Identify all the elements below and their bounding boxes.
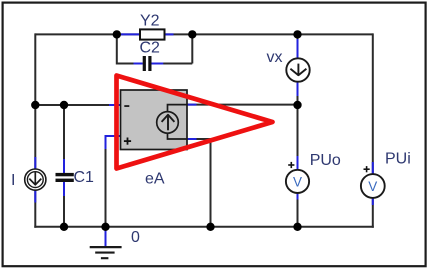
pin stub C1 top (63, 159, 65, 173)
dependent current source inside op-amp (157, 105, 187, 139)
op-amp red triangle (117, 76, 273, 169)
wire minus-input rail (35, 104, 120, 106)
pin stub vx bottom (297, 82, 299, 96)
node junction left rail / minus rail (31, 101, 39, 109)
current source vx (286, 58, 309, 81)
svg-text:PUo: PUo (310, 152, 341, 169)
voltmeter PUo (286, 170, 309, 193)
pin stub ground (105, 230, 107, 247)
pin stub op-amp minus input (109, 104, 121, 106)
capacitor C2 (143, 56, 152, 71)
wire op-amp bottom terminal (187, 139, 211, 227)
svg-text:vx: vx (267, 49, 283, 66)
pin stub op-amp plus input (106, 136, 121, 149)
node junction ground (101, 223, 109, 231)
svg-text:eA: eA (145, 170, 165, 187)
wire right rail (372, 33, 374, 227)
pin stub C2 right (152, 63, 164, 65)
pin stub vx top (297, 39, 299, 58)
op-amp eA body box (121, 90, 188, 150)
PUo plus polarity mark (288, 162, 294, 168)
node junction top-left of Y2 (113, 30, 121, 38)
svg-text:I: I (11, 172, 15, 189)
pin stub Y2 left (121, 33, 140, 35)
op-amp minus input mark (124, 105, 129, 107)
pin stub PUo top (297, 156, 299, 170)
current source I (25, 169, 46, 190)
pin stub PUi top (372, 162, 374, 174)
svg-text:C1: C1 (74, 169, 95, 186)
pin stub PUi bottom (372, 198, 374, 205)
svg-text:V: V (368, 179, 377, 194)
wire plus-input to ground rail (106, 136, 121, 227)
pin stub C2 left (134, 63, 143, 65)
pin stub Y2 right (165, 33, 174, 35)
svg-text:0: 0 (131, 229, 140, 246)
svg-text:C2: C2 (140, 39, 161, 56)
wire C2 branch (117, 34, 193, 63)
wire vx column (297, 34, 299, 105)
op-amp plus input mark (124, 138, 131, 145)
node junction PUo bottom (293, 223, 301, 231)
pin stub I source bottom (34, 190, 36, 203)
wire C1 branch (63, 105, 65, 227)
node junction C1 top (60, 101, 68, 109)
pin stub I source top (34, 157, 36, 169)
node junction op-amp bottom (206, 223, 214, 231)
svg-text:Y2: Y2 (140, 13, 160, 30)
node junction C1 bottom (60, 223, 68, 231)
pin stub C1 bottom (63, 182, 65, 196)
node junction top-right of Y2 (188, 30, 196, 38)
wire PUo column (297, 105, 299, 227)
admittance Y2 (140, 29, 165, 39)
voltmeter PUi (361, 174, 385, 198)
wire bottom rail (34, 226, 374, 228)
svg-text:PUi: PUi (385, 151, 411, 168)
wire top rail (35, 33, 373, 35)
pin stub op-amp bottom (187, 138, 197, 140)
PUi plus polarity mark (364, 166, 370, 172)
node junction vx top (293, 30, 301, 38)
wire op-amp output (187, 104, 298, 106)
svg-text:V: V (293, 174, 302, 189)
pin stub op-amp output (187, 104, 197, 106)
wire left rail (34, 33, 36, 227)
capacitor C1 (56, 173, 74, 182)
node junction output / vx bottom (293, 101, 301, 109)
ground (90, 247, 122, 258)
pin stub PUo bottom (297, 193, 299, 200)
